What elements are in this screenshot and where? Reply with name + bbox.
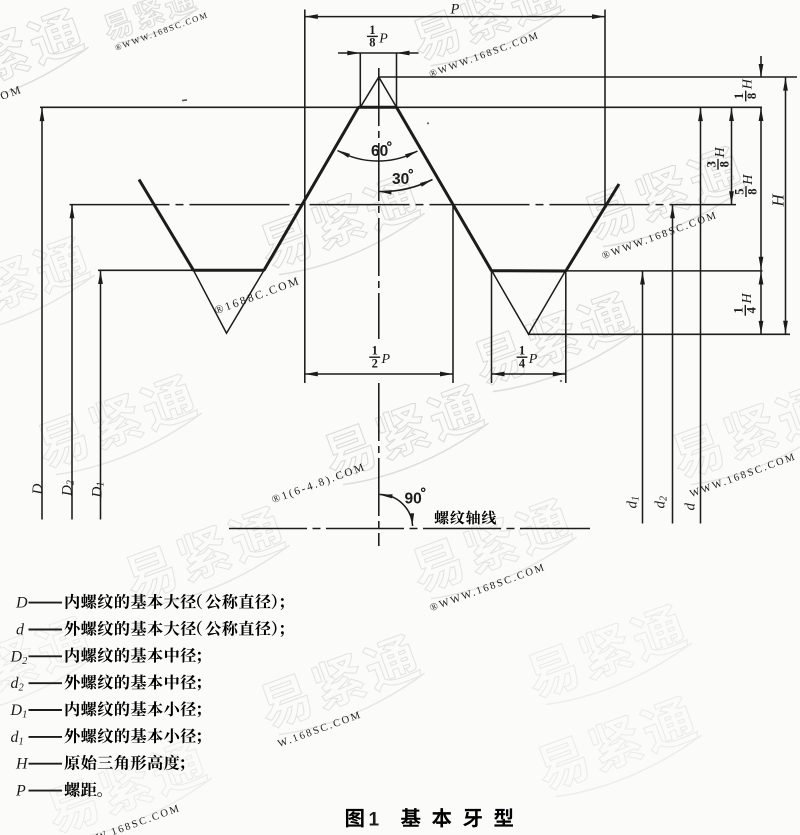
svg-text:P: P (450, 2, 460, 18)
svg-text:8: 8 (745, 188, 759, 194)
svg-text:d: d (16, 622, 25, 639)
30 degree arc (379, 180, 433, 192)
thread axis centerline (229, 528, 590, 530)
arrowheads H (783, 78, 788, 91)
label D (rotated) (30, 484, 46, 496)
dimension D1 line (100, 270, 102, 519)
svg-text:3: 3 (704, 161, 718, 167)
svg-text:®WWW.168SC.COM: ®WWW.168SC.COM (601, 210, 720, 262)
arrowheads 90 deg arc (380, 494, 393, 498)
1/4P extension lines (491, 270, 493, 383)
svg-text:d: d (683, 503, 699, 511)
dimension 1/8H leader above apex (760, 56, 762, 77)
watermark tiles (100, 0, 210, 54)
arrowheads 1/4P (492, 372, 505, 377)
1/8P extension lines (359, 53, 361, 107)
arrowheads P (305, 14, 318, 19)
svg-text:30: 30 (392, 171, 409, 188)
svg-text:90: 90 (405, 491, 422, 508)
svg-text:d1: d1 (11, 729, 24, 748)
dimension D line (41, 107, 43, 519)
label thread axis 螺纹轴线 (434, 510, 448, 524)
svg-text:H: H (741, 78, 756, 90)
svg-text:D2: D2 (10, 648, 29, 667)
svg-text:P: P (378, 31, 388, 46)
svg-text:W.168SC.COM: W.168SC.COM (277, 709, 364, 750)
dimension d2 line (672, 205, 674, 524)
1/2P right extension (452, 205, 454, 383)
svg-text:D2: D2 (60, 480, 77, 497)
svg-text:D1: D1 (10, 702, 28, 721)
svg-text:D: D (30, 484, 46, 496)
caption 图1 基本牙型 (346, 809, 364, 827)
root line right extension (d1) (566, 270, 763, 272)
label 5/8 H (rotated) (732, 174, 759, 197)
label 1/4 H (rotated) (732, 293, 759, 316)
svg-text:P: P (15, 783, 26, 800)
P dimension extension lines (304, 10, 306, 384)
svg-text:H: H (713, 147, 728, 159)
basic thread profile outline (thick) (139, 107, 619, 271)
label 1/8 H (rotated) (732, 78, 759, 101)
svg-text:8: 8 (717, 161, 731, 167)
apex line (top of fundamental triangle) (379, 76, 797, 78)
svg-text:2: 2 (372, 357, 378, 371)
svg-text:.168SC.COM: .168SC.COM (0, 84, 24, 124)
crest line / major diameter line D,d (40, 106, 762, 108)
label d2 (rotated) (653, 496, 670, 509)
60 degree arc (338, 151, 418, 162)
label D1 (rotated) (89, 482, 106, 499)
arrowheads 1/8H (759, 64, 764, 77)
svg-text:1: 1 (519, 344, 525, 358)
dimension 5/8H line (also 1/8H lower arrow) (760, 107, 762, 270)
svg-text:8: 8 (369, 36, 375, 50)
label H (rotated) (768, 193, 787, 208)
svg-text:D1: D1 (89, 482, 106, 499)
svg-text:1: 1 (369, 23, 375, 37)
svg-text:®WWW.168SC.COM: ®WWW.168SC.COM (429, 562, 548, 614)
arrowheads 1/2P (305, 372, 318, 377)
svg-text:H: H (740, 293, 755, 305)
90 degree arc (380, 495, 413, 527)
dimension d line (700, 107, 702, 523)
arrowheads 30 deg arc (379, 190, 392, 194)
svg-text:4: 4 (745, 306, 759, 313)
svg-text:1: 1 (369, 810, 380, 831)
scan specks (182, 99, 187, 101)
left groove V (thin) (194, 270, 265, 333)
svg-text:d2: d2 (11, 675, 25, 694)
vertical axis of profile (dash-dot) (378, 68, 380, 339)
label 1/8 P (367, 23, 388, 50)
dimension 1/2P line (305, 373, 453, 375)
dimension 1/4P line (492, 373, 566, 375)
svg-text:D: D (15, 595, 28, 612)
root line left extension (D1) (98, 269, 194, 271)
dimension D2 line (71, 205, 73, 520)
svg-text:P: P (381, 352, 391, 367)
dimension 1/8P line (338, 52, 419, 54)
svg-text:5: 5 (732, 188, 746, 194)
svg-text:d1: d1 (625, 496, 642, 509)
right groove V (thin) (492, 270, 566, 334)
dimension 3/8H line (731, 107, 733, 204)
label 1/2 P (369, 344, 390, 371)
label D2 (rotated) (60, 480, 77, 497)
svg-text:H: H (768, 193, 787, 208)
original triangle thin sides at crest (360, 77, 396, 107)
arrowheads 1/8P (outside) (347, 51, 360, 56)
label d1 (rotated) (625, 496, 642, 509)
svg-text:8: 8 (745, 93, 759, 99)
arrowheads d1 d2 d (640, 272, 645, 285)
svg-text:1: 1 (732, 93, 746, 99)
svg-text:H: H (741, 174, 756, 186)
svg-text:WWW.168SC.COM: WWW.168SC.COM (689, 451, 799, 500)
lower apex line (529, 333, 791, 335)
dimension d1 line (642, 271, 644, 524)
dimension P line (305, 16, 605, 18)
arrowheads 1/4H (759, 272, 764, 285)
arrowheads 3/8H (729, 108, 734, 121)
svg-text:P: P (528, 352, 538, 367)
svg-text:H: H (15, 756, 29, 773)
arrowheads 5/8H (759, 257, 764, 270)
pitch line (dash-dot centerline D2,d2) (70, 204, 737, 206)
label 3/8 H (rotated) (704, 147, 731, 170)
svg-text:d2: d2 (653, 496, 670, 509)
svg-text:1: 1 (372, 344, 378, 358)
arrowheads D D2 D1 (40, 108, 45, 121)
dimension H line (785, 77, 787, 334)
svg-text:4: 4 (519, 357, 526, 371)
label d (rotated) (683, 503, 699, 511)
dimension 1/4H line (760, 271, 762, 334)
svg-text:1: 1 (732, 307, 746, 313)
label 1/4 P (517, 344, 538, 371)
arrowheads 60 deg arc (338, 150, 350, 157)
svg-text:60: 60 (371, 143, 388, 160)
